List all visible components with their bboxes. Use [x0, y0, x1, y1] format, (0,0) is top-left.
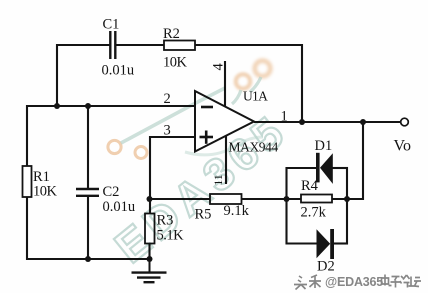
node junction C2 tap [85, 103, 91, 109]
pin 11 stub [225, 136, 227, 184]
svg-text:1: 1 [281, 109, 288, 125]
svg-text:4: 4 [211, 63, 227, 71]
diode D1 [316, 153, 333, 184]
ground [132, 259, 167, 282]
diode D2 [317, 229, 335, 259]
svg-text:U1A: U1A [243, 89, 268, 104]
svg-text:R4: R4 [301, 178, 319, 194]
wire non-inverting input pin 3 [150, 137, 195, 214]
wire network left rail [285, 167, 287, 245]
resistor R3 [145, 214, 155, 244]
wire node A up-left rail to C1 [57, 45, 110, 106]
wire R5 to network left rail [242, 198, 302, 200]
credit glyph 头 [294, 276, 307, 290]
wire D2 to right rail [334, 242, 348, 244]
terminal Vo [401, 118, 409, 126]
svg-text:9.1k: 9.1k [224, 203, 250, 219]
node junction feedback at output [299, 119, 305, 125]
wire R1 to bottom rail [26, 197, 28, 260]
svg-text:3: 3 [164, 123, 171, 139]
svg-text:Vo: Vo [394, 138, 412, 155]
wire network right rail [346, 167, 348, 245]
wire C2 to bottom rail [87, 196, 89, 260]
capacitor C1 [110, 31, 115, 59]
node junction network right [344, 196, 350, 202]
credit glyph 条 [309, 275, 321, 288]
wire R5 input from pin3 node [150, 198, 210, 200]
svg-text:D1: D1 [315, 138, 333, 154]
wire D1 to right rail [333, 167, 349, 169]
resistor R2 [164, 41, 195, 51]
credit glyph 电 [382, 275, 392, 286]
wire D2 branch left [287, 242, 317, 244]
node junction left rail / node A [54, 103, 60, 109]
resistor R5 [210, 194, 242, 204]
svg-text:2.7k: 2.7k [301, 205, 327, 221]
credit glyph 论 [400, 275, 410, 288]
node junction output tap [360, 119, 366, 125]
svg-text:10K: 10K [33, 184, 58, 200]
watermark teal curve near op-amp [185, 137, 263, 155]
wire output to terminal [254, 121, 401, 123]
node junction ground tap [147, 256, 153, 262]
watermark ring small right [135, 147, 147, 159]
wire R4 to output tap vertical [333, 122, 364, 199]
node junction network left [284, 196, 290, 202]
svg-text:0.01u: 0.01u [102, 63, 135, 79]
wire R2 to feedback corner down to output [195, 45, 302, 122]
op-amp minus input mark [201, 106, 213, 109]
credit emboss shadow [295, 276, 322, 291]
wire node A down to C2 [87, 106, 89, 188]
watermark blurred ring upper a [236, 74, 250, 88]
wire C1 to R2 [117, 44, 165, 46]
op-amp U1A triangle [195, 91, 254, 152]
svg-text:@EDA365: @EDA365 [325, 275, 383, 289]
svg-text:2: 2 [164, 91, 171, 107]
credit glyph 子 [391, 277, 401, 288]
node junction C2 bottom [85, 256, 91, 262]
pin 4 stub [224, 61, 226, 107]
capacitor C2 [76, 189, 99, 196]
watermark blurred ring upper b [255, 61, 271, 77]
resistor R1 [23, 166, 32, 197]
watermark teal stem under ring a [232, 90, 241, 104]
wire node A down to R1 [26, 105, 28, 166]
svg-text:D2: D2 [317, 259, 335, 275]
svg-text:R2: R2 [163, 26, 180, 42]
watermark teal stem under ring b [250, 77, 261, 92]
wire bottom rail [26, 258, 150, 260]
svg-text:C1: C1 [103, 17, 120, 33]
wire inverting input node A [27, 105, 195, 107]
svg-text:10K: 10K [163, 55, 188, 71]
credit glyph 坛 [409, 277, 422, 287]
credit line bottom right [294, 275, 421, 291]
wire R3 to ground tap [148, 244, 150, 261]
watermark ring small left [108, 140, 121, 153]
resistor R4 [301, 195, 332, 203]
watermark EDA365 logo overlay [105, 61, 297, 273]
svg-text:C2: C2 [103, 184, 120, 200]
wire D1 branch left [287, 167, 317, 169]
watermark teal diagonal stem [121, 88, 225, 143]
op-amp plus input mark [200, 131, 214, 144]
node junction R5 tap [147, 196, 153, 202]
